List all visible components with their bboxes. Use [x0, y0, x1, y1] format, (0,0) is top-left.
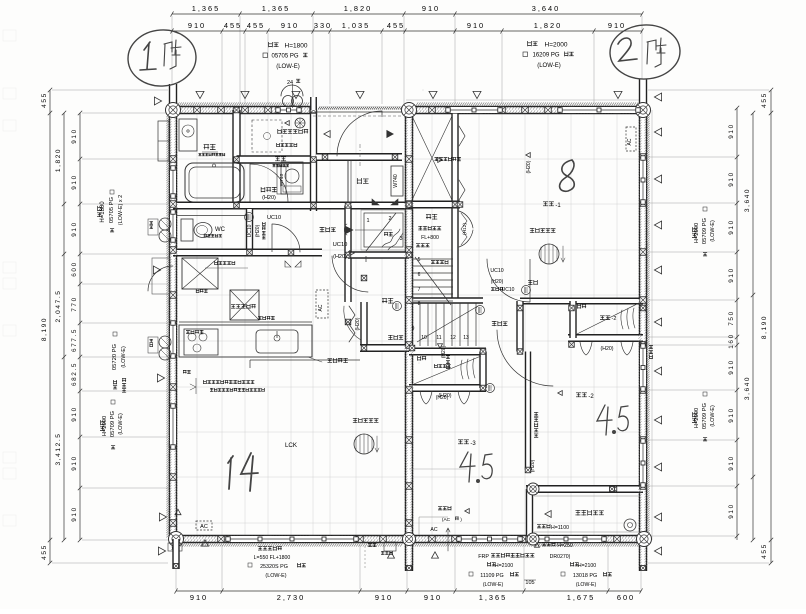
wall posts top	[194, 107, 201, 114]
svg-text:3,412.5: 3,412.5	[55, 433, 62, 466]
window top wall	[278, 107, 299, 113]
washing machine pan	[179, 119, 197, 151]
svg-text:13018 PG: 13018 PG	[573, 573, 597, 579]
bottom exterior wall 2F	[409, 536, 647, 543]
kitchen sink	[256, 330, 298, 353]
refrigerator square	[182, 258, 218, 289]
AC box 2F	[626, 127, 636, 151]
svg-text:770: 770	[71, 296, 78, 311]
svg-text:(LOW-E): (LOW-E)	[121, 346, 127, 368]
svg-text:910: 910	[375, 593, 393, 602]
svg-text:AC: AC	[318, 304, 324, 311]
svg-text:(LOW-E): (LOW-E)	[265, 573, 286, 579]
porch step line (agarikamachi)	[347, 160, 349, 204]
label room2 small	[600, 316, 610, 320]
svg-text:455: 455	[41, 92, 48, 108]
laundry hang label	[258, 546, 282, 551]
1F closet bottom wall	[360, 345, 409, 352]
2F balcony exterior wall	[526, 486, 643, 493]
label drain trap	[278, 129, 308, 134]
svg-text:910: 910	[728, 171, 735, 186]
water heater / 24h vent unit	[283, 96, 294, 107]
stub below right wall	[641, 566, 646, 571]
svg-text:750: 750	[728, 310, 735, 325]
stub below bottom-left corner	[173, 539, 179, 569]
svg-text:H=1100: H=1100	[551, 525, 569, 531]
1F WC right wall	[247, 209, 253, 253]
bottom exterior wall 1F	[173, 536, 409, 543]
svg-text:(H20): (H20)	[333, 254, 347, 260]
svg-text:25320S PG: 25320S PG	[260, 564, 288, 570]
label W740 box right	[391, 166, 403, 196]
label monoiri 1F closet	[382, 298, 393, 304]
porch markers	[387, 131, 393, 138]
svg-text:455: 455	[761, 543, 768, 559]
svg-text:1,365: 1,365	[192, 4, 221, 13]
3-panel door label	[534, 412, 538, 437]
label oku-kabe kitchen	[215, 261, 235, 265]
svg-text:05709 PG: 05709 PG	[702, 402, 708, 429]
window right wall	[640, 158, 646, 202]
svg-text:3,640: 3,640	[532, 4, 561, 13]
label hyojijo	[261, 187, 277, 192]
2F right closet left wall	[570, 301, 576, 338]
svg-text:UC10: UC10	[490, 268, 503, 274]
taré-kabe bow-ties on hall wall	[372, 199, 398, 205]
right dimension chain mid	[752, 113, 754, 540]
svg-text:UC10: UC10	[267, 215, 281, 221]
svg-text:W740: W740	[279, 173, 285, 186]
svg-text:910: 910	[422, 4, 440, 13]
svg-text:455: 455	[387, 21, 405, 30]
svg-text:910: 910	[281, 21, 299, 30]
svg-text:24: 24	[287, 80, 293, 86]
label room1	[543, 202, 554, 206]
marker triangles left side	[154, 97, 161, 105]
label shuunou 2F	[528, 280, 537, 285]
top exterior wall left segment	[173, 107, 316, 114]
right wall stub above	[640, 79, 647, 110]
2F closet A sliding door marks	[420, 391, 470, 404]
svg-text:AC: AC	[627, 138, 633, 145]
1F closet bifold door	[349, 306, 355, 342]
svg-text:DR0270): DR0270)	[550, 554, 571, 560]
label W740 box left	[277, 166, 286, 194]
svg-text:910: 910	[190, 593, 208, 602]
svg-text:6: 6	[418, 272, 421, 278]
svg-text:3,640: 3,640	[744, 188, 751, 212]
2F right closet top wall	[520, 298, 643, 304]
entrance wall posts	[322, 154, 328, 160]
svg-text:910: 910	[188, 21, 206, 30]
label near fridge	[196, 289, 207, 293]
window spec annotation top-right	[528, 41, 538, 46]
svg-text:455: 455	[41, 544, 48, 560]
porch canopy dashed	[313, 115, 402, 117]
svg-text:(AC: (AC	[442, 517, 451, 523]
washroom door arc	[250, 164, 288, 202]
svg-text:-1: -1	[555, 203, 561, 209]
central wall interior hatch	[404, 112, 407, 568]
1F washroom upper wall	[237, 156, 318, 163]
marker triangles right side	[654, 93, 661, 101]
svg-text:(H20): (H20)	[441, 345, 447, 358]
svg-text:1: 1	[366, 218, 369, 224]
svg-text:H=2000: H=2000	[694, 223, 700, 243]
svg-text:910: 910	[467, 21, 485, 30]
washroom fixtures outside left wall	[158, 121, 169, 161]
small triangles misc	[202, 540, 209, 546]
central wall between plans	[406, 107, 413, 572]
takado note line1	[203, 380, 254, 384]
svg-text:1,820: 1,820	[344, 4, 373, 13]
svg-text:13: 13	[463, 335, 469, 341]
2F left closet zigzag	[418, 362, 420, 364]
1F closet wall vertical	[361, 302, 367, 348]
label kyukiko left	[446, 356, 450, 369]
label dansa	[327, 358, 347, 363]
2F sliding door wall	[526, 352, 531, 471]
svg-text:910: 910	[728, 219, 735, 234]
floor direction circle 2F	[539, 244, 559, 264]
24h label glyph	[296, 79, 300, 82]
stairs note	[431, 260, 448, 264]
bottom dimension row	[176, 590, 641, 592]
AC box 1F bottom	[196, 521, 212, 530]
2F closet2 right wall	[480, 352, 486, 389]
right exterior wall	[640, 107, 647, 572]
2F closet bottom wall	[409, 201, 460, 208]
svg-text:910: 910	[71, 128, 78, 143]
vanity sink	[281, 162, 303, 194]
svg-text:1,820: 1,820	[55, 148, 62, 172]
label balcony	[575, 510, 603, 515]
svg-text:(LOW-E): (LOW-E)	[483, 582, 504, 588]
svg-text:-2: -2	[612, 316, 617, 322]
1F stair bottom wall	[348, 252, 409, 258]
svg-text:UC10: UC10	[333, 242, 348, 248]
svg-text:L=550 FL+1800: L=550 FL+1800	[254, 555, 291, 561]
svg-text:12: 12	[450, 335, 456, 341]
back door arc	[148, 266, 173, 291]
porch wall stub above	[311, 97, 317, 110]
svg-text:H=250: H=250	[557, 543, 573, 549]
tesuri label	[384, 232, 393, 236]
svg-text:(LOW-E): (LOW-E)	[276, 64, 300, 70]
2F stair bottom wall / closet top	[409, 348, 486, 355]
svg-text:H=2000: H=2000	[102, 416, 108, 436]
stairs 1F direction arrow	[355, 229, 392, 231]
svg-text:910: 910	[424, 593, 442, 602]
label washroom	[275, 157, 286, 161]
2F closet2 bottom wall	[409, 385, 486, 392]
top dimension row 1	[172, 13, 642, 15]
2F closet row B diagonal + hangers	[577, 303, 639, 334]
label tananashi	[388, 335, 403, 340]
1F WC bottom wall	[173, 249, 322, 256]
svg-text:W740: W740	[393, 174, 399, 188]
svg-text:H=1800: H=1800	[100, 201, 106, 223]
svg-text:1,820: 1,820	[534, 21, 563, 30]
floor direction circle 1F	[354, 434, 374, 454]
svg-text:677.5: 677.5	[71, 328, 78, 352]
left wall tiny boxed label upper	[148, 219, 158, 235]
bottom wall interior hatch	[178, 536, 639, 539]
entrance door arc	[337, 111, 382, 156]
vent fan circles left upper	[159, 218, 171, 230]
svg-text:910: 910	[728, 455, 735, 470]
label kyukiko right	[649, 346, 653, 359]
roof overhang line right	[651, 110, 653, 540]
svg-text:9: 9	[412, 326, 415, 332]
svg-text:05720 PG: 05720 PG	[112, 343, 118, 370]
svg-text:600: 600	[71, 261, 78, 276]
grid lines	[196, 110, 198, 539]
smoke detectors	[522, 286, 531, 295]
stairs 2F lower treads	[413, 257, 453, 305]
handwritten 4.5 right	[597, 405, 612, 435]
svg-text:105: 105	[525, 580, 534, 586]
svg-text:1,365: 1,365	[262, 4, 291, 13]
2F hall door arc	[497, 330, 553, 386]
svg-text:160: 160	[728, 333, 735, 348]
top wall interior hatch	[175, 107, 312, 110]
2F closet wall vertical	[452, 110, 458, 204]
stove	[184, 329, 218, 355]
svg-text:11: 11	[436, 335, 441, 341]
svg-text:05705 PG: 05705 PG	[109, 196, 115, 223]
svg-text:AC: AC	[430, 527, 437, 533]
left wall tiny boxed label lower	[148, 337, 158, 353]
wall posts right	[640, 154, 647, 161]
left window annotations (rotated)	[97, 206, 102, 217]
2F monoiri left wall	[452, 205, 458, 301]
balcony drain circle	[624, 519, 636, 531]
label hall 1F	[320, 227, 336, 232]
svg-text:WC: WC	[215, 227, 226, 233]
2F closet sliding door marks	[580, 342, 633, 355]
kitchen shelf label	[258, 316, 275, 320]
kitchen wall bow-tie marks	[285, 261, 301, 267]
svg-text:(H20): (H20)	[439, 393, 452, 399]
svg-text:H=1800: H=1800	[285, 43, 308, 50]
svg-text:H=2100: H=2100	[578, 563, 596, 569]
window bottom wall	[228, 536, 356, 542]
exterior wall hatch top	[416, 102, 640, 105]
stairs 1F break squiggle	[382, 229, 403, 250]
svg-text:UC10: UC10	[247, 224, 253, 237]
2F closet door chevrons	[459, 126, 465, 200]
1F bathroom right wall	[233, 110, 240, 205]
underfloor storage	[230, 290, 259, 320]
handwritten 8	[560, 160, 575, 191]
makura-dana label B	[578, 304, 587, 309]
left wall interior hatch	[168, 116, 171, 535]
stairs 1F opening box	[364, 213, 403, 247]
handwritten 1F circle	[126, 28, 198, 89]
svg-text:1,035: 1,035	[342, 21, 371, 30]
svg-text:910: 910	[728, 267, 735, 282]
svg-text:455: 455	[247, 21, 265, 30]
wall posts bottom	[218, 536, 225, 543]
entrance center dash-dot	[359, 144, 361, 168]
svg-text:(H20): (H20)	[530, 459, 536, 472]
toilet	[181, 219, 193, 241]
svg-text:H=2000: H=2000	[694, 408, 700, 428]
stairs 1F diagonal	[366, 213, 396, 251]
balcony corner circle posts	[527, 483, 539, 495]
label tesuri balcony	[537, 524, 550, 528]
label entrance	[357, 178, 368, 184]
counter hatch tick	[311, 325, 313, 357]
label room3	[458, 440, 469, 444]
1F kitchen counter back line	[179, 321, 312, 323]
left dimension chain mid	[63, 113, 65, 540]
svg-text:-2: -2	[588, 394, 594, 400]
label floor dir 1F	[353, 418, 379, 423]
closet hatch small left	[422, 89, 424, 91]
stub below central wall	[407, 566, 412, 571]
interior small posts	[234, 107, 240, 113]
1F hall/stair wall	[345, 206, 351, 303]
svg-text:910: 910	[71, 455, 78, 470]
2F room3 top line	[409, 468, 467, 470]
1F bathroom bottom wall	[173, 202, 412, 209]
exterior wall hatch left	[166, 114, 169, 537]
2F hall closet wall	[517, 301, 523, 352]
1F WC inner partition	[176, 215, 247, 217]
svg-text:1,365: 1,365	[479, 593, 508, 602]
svg-text:600: 600	[617, 593, 635, 602]
bottom left small labels	[168, 543, 182, 551]
svg-text:(LOW-E): (LOW-E)	[710, 405, 716, 427]
bottom center kyukiko AC annotation	[438, 506, 451, 510]
top exterior wall right segment	[406, 107, 647, 114]
svg-text:2,047.5: 2,047.5	[55, 290, 62, 323]
1F washroom/hall wall	[311, 110, 317, 211]
svg-text:(H12): (H12)	[462, 223, 468, 235]
kitchen counter	[179, 325, 312, 357]
svg-text:(LOW-E): (LOW-E)	[118, 413, 124, 435]
svg-text:1,675: 1,675	[567, 593, 596, 602]
label closet 2F	[434, 157, 460, 161]
WC door arc	[272, 224, 300, 252]
svg-text:8,190: 8,190	[761, 315, 768, 339]
svg-text:(H20): (H20)	[355, 317, 361, 330]
svg-text:910: 910	[728, 359, 735, 374]
handwritten 14	[228, 456, 233, 489]
vent fan circles left lower	[159, 336, 171, 348]
right wall interior hatch	[638, 112, 641, 568]
2F balcony left rail	[527, 489, 533, 539]
takado note line2	[210, 388, 264, 392]
svg-text:(H20): (H20)	[262, 195, 276, 201]
marker triangles above top wall	[196, 91, 204, 98]
svg-text:H=2000: H=2000	[545, 42, 568, 49]
svg-text:3,640: 3,640	[744, 376, 751, 400]
svg-text:910: 910	[608, 21, 626, 30]
makura-dana label A	[418, 356, 427, 361]
svg-text:910: 910	[71, 174, 78, 189]
laundry machine place (dashed)	[252, 120, 282, 152]
wall posts left	[170, 156, 177, 163]
label room2	[576, 393, 587, 397]
label monoiri 2F	[426, 214, 437, 220]
right dimension chain outer	[770, 90, 772, 563]
svg-text:-3: -3	[470, 441, 476, 447]
svg-text:(H20): (H20)	[491, 279, 504, 285]
window spec annotation top-left	[269, 42, 279, 47]
window left wall upper	[170, 168, 176, 196]
up triangles below bottom wall	[388, 552, 395, 558]
1F step line	[250, 359, 360, 361]
dimension extension lines	[171, 16, 173, 104]
top dimension row 2	[172, 30, 455, 32]
left dimension chain outer	[49, 90, 51, 563]
porch floor edge line	[316, 111, 409, 113]
right window annotations (rotated)	[692, 227, 697, 237]
2F right closet bottom wall	[568, 335, 643, 342]
label bathroom	[204, 144, 216, 150]
label floor dir 2F	[530, 228, 556, 233]
svg-text:(LOW-E): (LOW-E)	[576, 582, 597, 588]
kitchen door arc	[332, 256, 368, 292]
svg-text:(H20): (H20)	[601, 346, 614, 352]
left wall stub above	[170, 84, 177, 110]
stairs 2F upper treads	[417, 303, 478, 346]
svg-text:2,730: 2,730	[277, 593, 306, 602]
2F stair mid wall	[409, 298, 483, 303]
closet note on diagonal	[434, 364, 450, 368]
handwritten 4.5 left	[460, 452, 475, 482]
svg-text:(H20): (H20)	[255, 224, 261, 237]
left dimension chain inner	[79, 113, 81, 540]
2F monoiri bifold doors	[459, 211, 473, 247]
svg-text:05709 PG: 05709 PG	[702, 217, 708, 244]
svg-text:910: 910	[728, 407, 735, 422]
svg-text:H=2100: H=2100	[495, 563, 513, 569]
svg-text:16209 PG: 16209 PG	[532, 53, 559, 59]
right dimension chain inner	[736, 108, 738, 540]
svg-text:10: 10	[421, 335, 427, 341]
svg-text:(LOW-E): (LOW-E)	[710, 220, 716, 242]
svg-text:682.5: 682.5	[71, 362, 78, 386]
svg-text:5: 5	[418, 257, 421, 263]
svg-text:330: 330	[314, 21, 332, 30]
2F top-left closet diagonals	[412, 116, 452, 200]
svg-text:(LOW-E) x 2: (LOW-E) x 2	[118, 195, 124, 225]
svg-text:05709 PG: 05709 PG	[110, 410, 116, 437]
exterior wall hatch right	[646, 112, 649, 538]
svg-text:(H20): (H20)	[526, 160, 532, 173]
svg-text:05705 PG: 05705 PG	[271, 54, 298, 60]
svg-text:3: 3	[399, 236, 402, 242]
svg-text:FRP: FRP	[478, 554, 489, 560]
svg-text:910: 910	[71, 406, 78, 421]
svg-text:2: 2	[388, 216, 391, 222]
balcony inner lines	[534, 495, 640, 497]
2F closet row A diagonal + hangers	[414, 356, 481, 384]
label oku-kabe	[277, 143, 297, 147]
label ceiling note 2F	[418, 226, 441, 230]
svg-text:455: 455	[224, 21, 242, 30]
storage label	[231, 304, 256, 309]
svg-text:(LOW-E): (LOW-E)	[537, 63, 561, 69]
svg-text:FL+800: FL+800	[421, 235, 439, 241]
svg-text:8,190: 8,190	[41, 317, 48, 341]
handwritten 2F circle	[609, 23, 682, 81]
corner posts	[166, 103, 181, 118]
